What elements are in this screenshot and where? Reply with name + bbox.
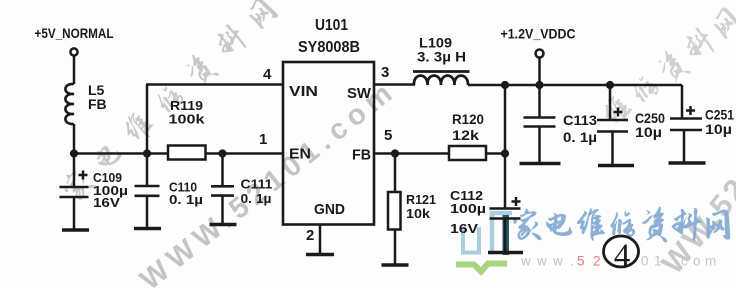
ground U101 bbox=[306, 253, 334, 256]
svg-text:FB: FB bbox=[352, 147, 371, 164]
svg-text:1: 1 bbox=[259, 131, 267, 148]
svg-text:100k: 100k bbox=[169, 112, 206, 127]
svg-text:5: 5 bbox=[577, 254, 585, 269]
svg-text:L109: L109 bbox=[419, 36, 452, 51]
junction node L5/C109 bbox=[70, 149, 78, 157]
capacitor C110 bbox=[146, 154, 149, 187]
capacitor C109 bbox=[73, 154, 76, 188]
svg-text:EN: EN bbox=[289, 146, 311, 163]
svg-text:0: 0 bbox=[641, 254, 649, 269]
watermark url www.52101.com bbox=[520, 254, 716, 269]
inductor L5 bbox=[65, 84, 74, 124]
junction node VDDC bbox=[535, 81, 543, 89]
ground R121 bbox=[382, 263, 409, 266]
svg-text:FB: FB bbox=[88, 96, 107, 112]
wire VIN branch horizontal to pin 4 bbox=[146, 83, 283, 86]
inductor L109 bbox=[414, 76, 468, 85]
svg-text:GND: GND bbox=[314, 201, 345, 218]
wire L5 to EN rail bbox=[73, 124, 76, 154]
watermark diagonal CJK fragment top right bbox=[597, 3, 736, 132]
junction node C111 bbox=[218, 149, 226, 157]
resistor R121 bbox=[394, 154, 397, 192]
svg-text:+1.2V_VDDC: +1.2V_VDDC bbox=[501, 26, 576, 42]
wire GND stub pin 2 bbox=[319, 225, 322, 254]
svg-text:R120: R120 bbox=[452, 112, 484, 127]
watermark diagonal CJK band left bbox=[56, 0, 280, 206]
capacitor C113 bbox=[538, 85, 541, 118]
svg-text:C113: C113 bbox=[563, 113, 598, 128]
terminal +5V_NORMAL bbox=[70, 48, 77, 55]
wire EN rail bbox=[74, 152, 283, 155]
svg-text:5: 5 bbox=[384, 127, 392, 144]
resistor R120 bbox=[449, 146, 486, 160]
svg-text:4: 4 bbox=[263, 66, 272, 83]
svg-text:o: o bbox=[693, 254, 701, 269]
svg-text:c: c bbox=[681, 254, 688, 269]
ground C250 bbox=[598, 164, 634, 167]
svg-text:10µ: 10µ bbox=[635, 125, 662, 140]
ground C111 bbox=[210, 223, 237, 226]
junction node R121 bbox=[391, 149, 399, 157]
svg-text:VIN: VIN bbox=[289, 83, 318, 100]
svg-text:SW: SW bbox=[347, 85, 372, 102]
svg-text:3: 3 bbox=[381, 64, 389, 81]
watermark diagonal url band center bbox=[134, 74, 402, 288]
wire L109 to output rail bbox=[468, 84, 682, 87]
svg-text:SY8008B: SY8008B bbox=[298, 39, 360, 56]
logo 52dzw book icon bbox=[456, 213, 512, 272]
capacitor C112 bbox=[504, 154, 507, 209]
svg-text:2: 2 bbox=[593, 254, 601, 269]
wire FB line bbox=[374, 152, 505, 155]
svg-text:0. 1µ: 0. 1µ bbox=[241, 191, 272, 206]
capacitor C111 bbox=[221, 154, 224, 187]
ground C110 bbox=[134, 227, 161, 230]
capacitor C250 bbox=[609, 85, 612, 120]
svg-text:10k: 10k bbox=[406, 206, 431, 221]
svg-text:0. 1µ: 0. 1µ bbox=[169, 192, 203, 207]
page number circled 4 bbox=[604, 236, 639, 274]
watermark fragment right edge bbox=[655, 170, 736, 281]
wire VIN branch vertical bbox=[146, 85, 149, 154]
svg-text:w: w bbox=[536, 254, 547, 269]
svg-text:10µ: 10µ bbox=[705, 122, 732, 137]
svg-text:w: w bbox=[552, 254, 563, 269]
svg-text:0. 1µ: 0. 1µ bbox=[563, 130, 597, 145]
junction node C110/VIN branch bbox=[143, 149, 151, 157]
svg-text:3. 3µ H: 3. 3µ H bbox=[417, 50, 466, 65]
svg-text:C251: C251 bbox=[705, 108, 734, 123]
op-amp U101 SY8008B regulator bbox=[283, 62, 374, 225]
svg-text:w: w bbox=[520, 254, 531, 269]
svg-text:2: 2 bbox=[306, 227, 314, 244]
ground C113 bbox=[520, 162, 561, 165]
wire SW to L109 bbox=[374, 83, 415, 86]
ground C251 bbox=[669, 161, 706, 164]
ground C109 bbox=[62, 228, 89, 231]
svg-text:1: 1 bbox=[654, 254, 662, 269]
svg-text:.: . bbox=[670, 254, 674, 269]
capacitor C251 bbox=[681, 85, 684, 119]
wire SW node down to FB node bbox=[504, 85, 507, 154]
svg-text:C250: C250 bbox=[635, 111, 665, 126]
svg-text:16V: 16V bbox=[450, 221, 478, 236]
resistor R119 bbox=[168, 146, 206, 160]
svg-text:100µ: 100µ bbox=[450, 201, 486, 216]
watermark blue text jiadian weixiu ziliao wang bbox=[514, 207, 730, 242]
junction node C250 bbox=[606, 81, 614, 89]
svg-text:R121: R121 bbox=[406, 192, 436, 207]
ground C112 bbox=[488, 251, 523, 254]
junction node SW/R120/C112 bbox=[501, 81, 509, 89]
svg-text:4: 4 bbox=[614, 238, 631, 274]
svg-text:12k: 12k bbox=[452, 128, 480, 143]
svg-text:U101: U101 bbox=[315, 17, 348, 34]
svg-text:16V: 16V bbox=[93, 195, 120, 210]
svg-text:m: m bbox=[705, 254, 716, 269]
svg-text:+5V_NORMAL: +5V_NORMAL bbox=[35, 25, 114, 41]
svg-text:.: . bbox=[570, 254, 574, 269]
wire VDDC terminal bbox=[538, 58, 541, 86]
junction node FB/C112 bbox=[501, 149, 509, 157]
svg-text:C111: C111 bbox=[241, 177, 273, 192]
wire terminal to L5 bbox=[73, 56, 76, 85]
